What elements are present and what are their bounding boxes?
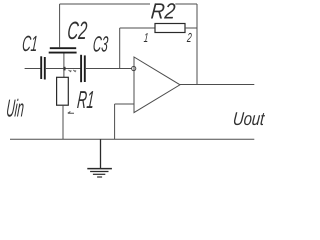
wire feedback vertical to output: [196, 4, 198, 85]
inverting input bubble: [132, 66, 136, 70]
svg-text:Uout: Uout: [232, 108, 265, 129]
ground: [87, 139, 112, 177]
wire C2 bottom plate down through node A to R1: [63, 53, 65, 77]
wire R2 left lead: [120, 27, 155, 29]
wire R2 right lead: [185, 27, 197, 29]
svg-text:R2: R2: [150, 0, 176, 24]
wire output: [180, 84, 254, 86]
svg-text:C1: C1: [21, 31, 39, 56]
svg-text:R1: R1: [76, 87, 95, 114]
mark small arrow below R1: [68, 112, 74, 114]
node A junction: [63, 67, 65, 71]
capacitor C2: [49, 48, 77, 52]
svg-text:Uin: Uin: [5, 96, 25, 123]
wire non-inverting input horizontal: [115, 103, 134, 105]
mark small ticks near node A: [69, 70, 77, 72]
svg-text:C2: C2: [66, 17, 88, 45]
wire bottom ground rail: [10, 138, 254, 140]
wire R1 bottom to ground rail: [62, 105, 64, 139]
capacitor C1: [41, 56, 45, 79]
op-amp U1: [134, 57, 180, 113]
wire R2 branch vertical from inverting input node: [119, 28, 121, 69]
wire top rail (left of R2 label): [60, 3, 150, 5]
wire non-inverting input vertical to ground rail: [114, 104, 116, 139]
wire input stub Uin: [25, 68, 41, 70]
svg-text:C3: C3: [92, 32, 110, 57]
wire top rail (right of R2 label): [175, 3, 197, 5]
wire C3 to inverting input bubble: [86, 68, 132, 70]
capacitor C3: [81, 55, 85, 82]
resistor R2: [155, 24, 185, 33]
wire C2 top plate up to top rail: [59, 4, 61, 47]
resistor R1: [57, 77, 69, 105]
wire C1 to node A to C3: [46, 68, 81, 70]
